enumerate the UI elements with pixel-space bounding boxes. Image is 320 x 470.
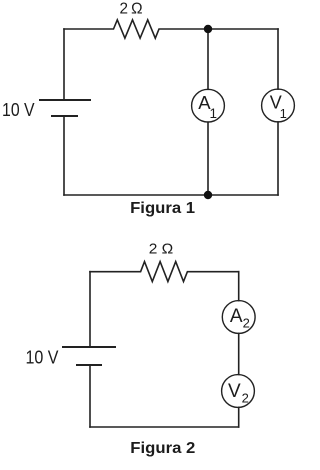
svg-text:Figura 2: Figura 2 — [130, 440, 195, 457]
svg-text:2: 2 — [242, 390, 249, 405]
svg-text:V: V — [228, 381, 241, 402]
svg-text:2 Ω: 2 Ω — [149, 241, 174, 257]
svg-text:10 V: 10 V — [2, 100, 35, 120]
svg-text:1: 1 — [280, 106, 287, 121]
svg-text:2: 2 — [243, 316, 250, 331]
svg-text:1: 1 — [209, 106, 217, 121]
svg-text:A: A — [230, 306, 243, 327]
svg-text:10 V: 10 V — [26, 348, 59, 368]
svg-text:2 Ω: 2 Ω — [120, 1, 143, 18]
svg-text:Figura 1: Figura 1 — [130, 200, 195, 217]
